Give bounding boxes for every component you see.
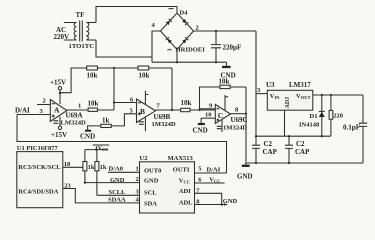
pin 6 wire Vcc — [195, 182, 225, 184]
svg-text:D/AI: D/AI — [207, 166, 221, 173]
svg-text:VCC: VCC — [209, 177, 220, 184]
svg-text:SCL: SCL — [144, 190, 157, 197]
svg-text:D/A0: D/A0 — [109, 166, 123, 173]
wire Vout rail — [313, 94, 363, 96]
diode bottom-left — [166, 37, 172, 43]
U69C power stubs — [225, 95, 228, 110]
svg-text:23: 23 — [64, 182, 71, 189]
svg-text:ADJ: ADJ — [285, 97, 291, 109]
diode top-left — [166, 19, 172, 25]
resistor 1k (SDA pullup) — [96, 150, 98, 162]
svg-text:C2: C2 — [264, 140, 273, 148]
resistor 1k — [101, 124, 111, 127]
svg-text:VCC: VCC — [98, 146, 109, 152]
svg-text:3: 3 — [136, 189, 140, 196]
pin 8 wire — [195, 204, 228, 206]
svg-text:RC4/SDI/SDA: RC4/SDI/SDA — [18, 189, 58, 196]
regulator U3 LM317 — [256, 93, 267, 95]
svg-text:+15V: +15V — [51, 131, 67, 139]
svg-text:CAP: CAP — [263, 148, 278, 156]
svg-text:220: 220 — [333, 112, 343, 119]
capacitor 220uF — [211, 31, 221, 62]
svg-text:VIN: VIN — [270, 93, 280, 100]
pin 2 wire — [37, 104, 50, 106]
svg-text:TF: TF — [76, 11, 85, 19]
adj rail — [256, 135, 331, 137]
svg-text:10: 10 — [205, 112, 212, 119]
resistor 10k (bus left) — [87, 66, 98, 70]
wire U69A output — [67, 109, 88, 111]
svg-text:1k: 1k — [100, 164, 107, 171]
pin 18 wire — [63, 166, 83, 168]
svg-text:10k: 10k — [219, 78, 230, 86]
resistor 10k (bus right) — [138, 66, 149, 70]
svg-text:A: A — [54, 106, 60, 115]
+15V terminal lower — [59, 117, 61, 127]
svg-text:OUT0: OUT0 — [144, 167, 161, 174]
svg-text:GND: GND — [144, 178, 159, 185]
svg-text:3: 3 — [168, 49, 174, 52]
svg-text:U2: U2 — [140, 155, 148, 162]
wire ADJ pin — [284, 110, 286, 136]
bottom ground wire — [246, 162, 363, 164]
svg-text:LM317: LM317 — [289, 81, 311, 89]
svg-text:ADI: ADI — [179, 188, 191, 195]
wire bus right end down — [171, 68, 173, 110]
svg-text:1M324D: 1M324D — [152, 121, 176, 128]
svg-text:IN4148: IN4148 — [299, 122, 320, 129]
svg-text:1: 1 — [78, 103, 81, 110]
wire bus down to pin6/node — [113, 68, 115, 110]
capacitor C2 (adj) — [285, 136, 293, 163]
ground CND (bridge) — [226, 62, 228, 66]
svg-text:0.1μF: 0.1μF — [343, 124, 360, 132]
svg-text:1: 1 — [136, 166, 139, 173]
pin 3 wire — [17, 114, 50, 116]
svg-text:1TO1TC: 1TO1TC — [69, 43, 95, 50]
svg-text:U3: U3 — [266, 81, 275, 89]
pin 23 wire — [63, 189, 140, 203]
svg-text:1k: 1k — [102, 117, 110, 125]
diode top-right — [182, 19, 188, 25]
svg-text:2: 2 — [43, 98, 46, 105]
svg-text:1M324D: 1M324D — [223, 125, 247, 132]
IC U1 PIC16F877 — [17, 152, 63, 208]
capacitor 0.1uF — [359, 95, 367, 163]
svg-text:SDAA: SDAA — [108, 197, 126, 204]
svg-text:D1: D1 — [310, 113, 318, 120]
op-amp U69B — [137, 99, 156, 123]
svg-text:VOUT: VOUT — [296, 93, 310, 100]
pin 1 mark (rotated) — [169, 8, 174, 10]
wire pin 6 — [114, 102, 137, 104]
capacitor C2 (input) — [252, 145, 260, 163]
wire D/AI long return — [17, 115, 227, 174]
wire bridge + output — [194, 30, 257, 32]
svg-text:1k: 1k — [88, 164, 95, 171]
svg-text:CND: CND — [80, 133, 95, 141]
svg-text:U1 PIC16F877: U1 PIC16F877 — [17, 145, 59, 152]
svg-text:220μF: 220μF — [223, 44, 242, 52]
wire SCLL row — [97, 194, 140, 196]
svg-text:SDA: SDA — [144, 200, 157, 207]
svg-text:GND: GND — [237, 173, 253, 181]
diode D1 IN4148 — [321, 95, 323, 136]
svg-text:2: 2 — [196, 25, 199, 32]
svg-text:GND: GND — [110, 177, 125, 184]
wire Vin vertical — [255, 31, 257, 145]
svg-text:LM324D: LM324D — [61, 120, 87, 127]
svg-text:ADL: ADL — [179, 199, 193, 206]
wire GND row — [85, 182, 140, 184]
svg-text:2: 2 — [136, 176, 139, 183]
svg-text:OUTI: OUTI — [173, 166, 190, 173]
svg-text:C: C — [218, 111, 223, 120]
svg-text:GND: GND — [223, 198, 238, 205]
resistor 10k (U69B out) — [181, 108, 190, 111]
svg-text:220V: 220V — [54, 33, 70, 41]
svg-text:10k: 10k — [139, 72, 150, 80]
svg-text:RC3/SCK/SCL: RC3/SCK/SCL — [18, 164, 61, 171]
diode bottom-right — [182, 37, 188, 43]
wire +15V to feedback bus — [60, 68, 172, 93]
IC U2 MAX513 — [140, 162, 195, 213]
wire secondary top to bridge — [96, 7, 177, 23]
svg-text:CAP: CAP — [295, 148, 310, 156]
ground GND (bottom) — [245, 163, 247, 165]
svg-text:3: 3 — [40, 108, 44, 115]
pin 7 wire — [195, 193, 222, 204]
wire 1k to pin 5 — [111, 114, 136, 126]
svg-text:18: 18 — [64, 161, 71, 168]
svg-text:10k: 10k — [181, 99, 192, 107]
op-amp U69C — [215, 105, 230, 124]
svg-text:SCLL: SCLL — [109, 189, 127, 196]
pin 5 wire D/AI — [195, 172, 227, 174]
svg-text:4: 4 — [152, 22, 156, 29]
svg-text:CND: CND — [193, 127, 208, 135]
Vcc rail — [85, 149, 108, 151]
svg-text:HRIDOEI: HRIDOEI — [176, 47, 206, 54]
wire D/A0 row — [108, 171, 140, 173]
svg-text:8: 8 — [235, 107, 239, 114]
U69B power stubs — [145, 91, 148, 104]
svg-text:U69B: U69B — [154, 113, 171, 121]
resistor 220 — [330, 95, 332, 136]
pin 10 wire + ground — [201, 117, 215, 119]
svg-text:U69C: U69C — [231, 116, 248, 124]
svg-text:C2: C2 — [296, 140, 305, 148]
svg-text:D4: D4 — [180, 10, 189, 17]
wire U69C output — [231, 113, 247, 115]
svg-text:3: 3 — [257, 87, 261, 94]
feedback 10k (U69C) — [200, 87, 247, 110]
bridge rectifier D4 — [161, 13, 194, 50]
svg-text:VCC: VCC — [179, 177, 190, 184]
bridge bottom stub and wire — [152, 50, 227, 63]
wire feedback down / to ground — [245, 87, 247, 163]
svg-text:+15V: +15V — [50, 79, 66, 87]
svg-text:U69A: U69A — [66, 112, 83, 120]
svg-text:B: B — [140, 107, 145, 116]
svg-text:10k: 10k — [88, 100, 99, 108]
resistor 10k (U69A out) — [88, 108, 97, 111]
svg-text:10k: 10k — [87, 72, 98, 80]
wire U69C pin9 feedback node to triangle — [200, 108, 216, 110]
svg-text:5: 5 — [198, 166, 202, 173]
resistor 1k (SCL pullup) — [84, 150, 86, 162]
svg-text:7: 7 — [157, 103, 161, 110]
transformer TF — [64, 21, 96, 42]
wire secondary bottom to bridge — [96, 31, 161, 62]
ground CND (1k) — [85, 130, 91, 132]
svg-text:D/AI: D/AI — [15, 107, 30, 115]
op-amp U69A — [50, 100, 67, 122]
wire U69B output — [156, 109, 181, 111]
svg-text:MAX513: MAX513 — [168, 155, 194, 162]
node bus junction — [113, 67, 115, 69]
